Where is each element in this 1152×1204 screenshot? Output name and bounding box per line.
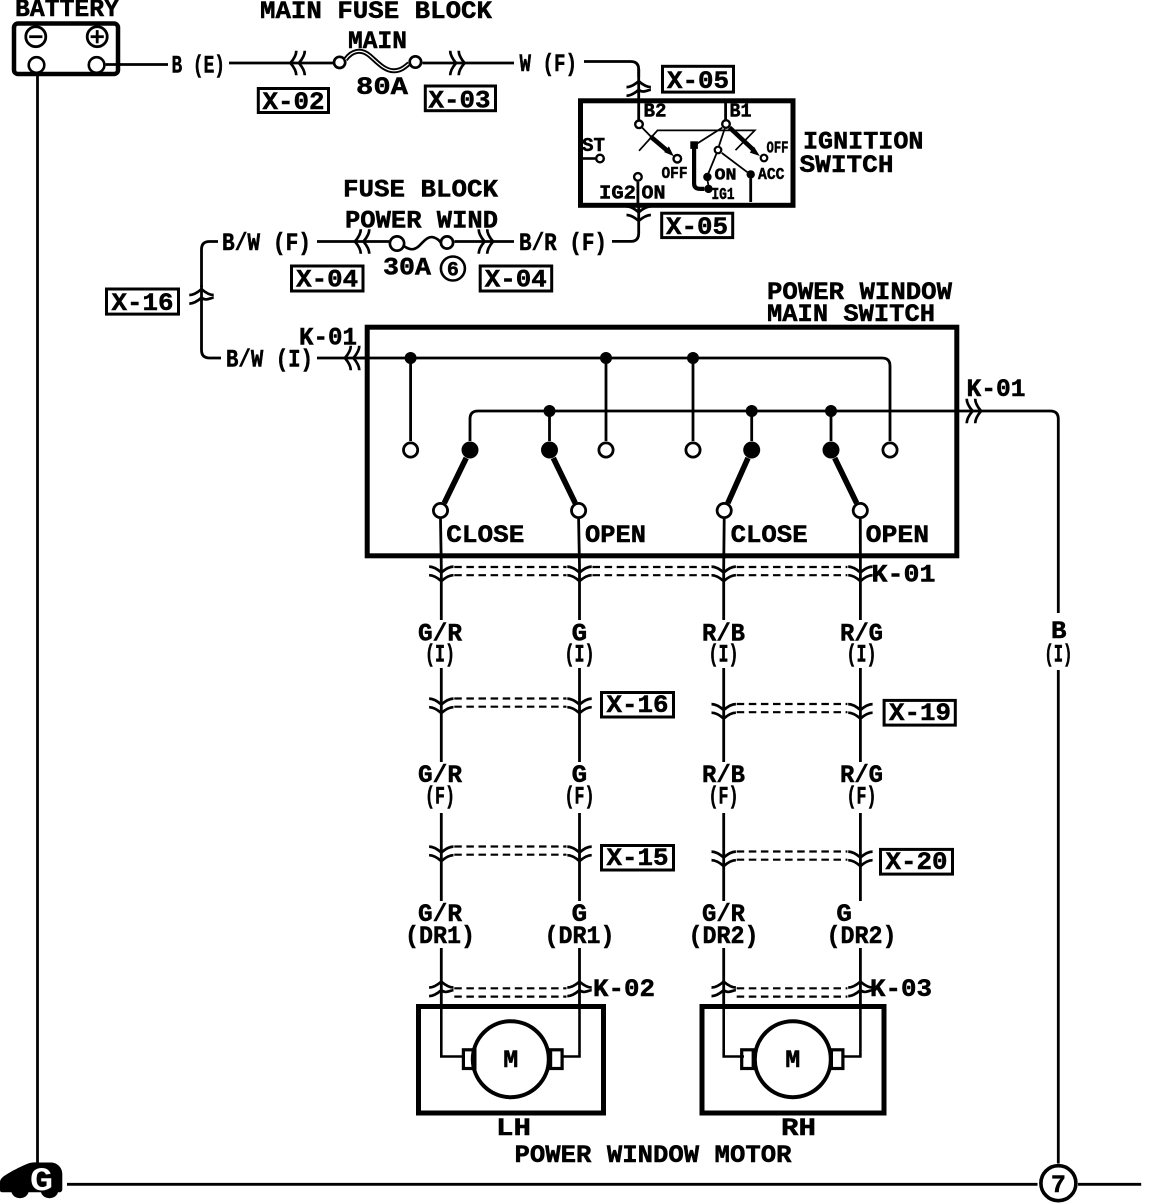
arm contact circle 3	[717, 503, 731, 517]
motor RH wiring right	[844, 1008, 860, 1057]
wire battery negative down left side	[36, 74, 39, 1163]
svg-text:K-02: K-02	[593, 975, 655, 1004]
switch arm 3 CLOSE	[728, 458, 748, 503]
dashed connector line	[593, 566, 711, 568]
motor RH brush left	[742, 1050, 754, 1069]
dashed connector line	[737, 703, 848, 705]
wire IG2 down to B/R (F)	[637, 182, 640, 203]
connector X-02 chevron	[290, 51, 296, 76]
svg-text:W (F): W (F)	[520, 50, 578, 79]
svg-text:ON: ON	[642, 183, 666, 205]
wire segment col2	[578, 813, 581, 901]
connector X-03 chevron	[450, 51, 456, 76]
wire segment col3	[722, 813, 725, 901]
svg-text:SWITCH: SWITCH	[800, 151, 894, 180]
wire segment col3	[722, 948, 725, 1008]
svg-text:ACC: ACC	[758, 166, 785, 185]
ignition switch contact OFF right	[761, 155, 768, 162]
ground body symbol (car)	[0, 1162, 62, 1201]
junction dot	[600, 352, 612, 364]
connector row K-01 chevrons	[429, 567, 453, 573]
wire W (F) to ignition switch B2	[584, 62, 639, 78]
ground bus wire right segment	[1078, 1183, 1141, 1186]
svg-text:K-01: K-01	[967, 375, 1026, 404]
connector row K-02 chevrons	[429, 982, 453, 988]
motor LH wiring right	[562, 1008, 580, 1057]
power window motor LH box	[419, 1007, 604, 1114]
contact common 1 (filled)	[462, 442, 479, 459]
ignition switch contact OFF left	[674, 155, 682, 163]
contact open 2	[599, 443, 613, 457]
svg-text:(F): (F)	[847, 783, 877, 812]
battery	[14, 24, 118, 75]
dashed connector line	[454, 697, 566, 699]
connector K-01 chevron left	[345, 346, 351, 371]
contact open 3	[686, 443, 700, 457]
switch arm 4 OPEN	[835, 458, 857, 503]
svg-text:X-19: X-19	[889, 699, 951, 728]
thin line pivot to ACC	[722, 153, 748, 172]
junction dot	[746, 405, 758, 417]
dashed connector line	[454, 845, 566, 847]
svg-text:B/W (F): B/W (F)	[222, 229, 311, 258]
junction dot	[544, 405, 556, 417]
svg-text:(F): (F)	[425, 783, 455, 812]
power window motor RH box	[702, 1007, 884, 1114]
wire ACC down to box bottom	[749, 179, 752, 203]
svg-text:B1: B1	[730, 101, 752, 123]
contact common 4 (filled)	[823, 442, 840, 459]
svg-text:(DR1): (DR1)	[405, 922, 475, 951]
junction dot	[687, 352, 699, 364]
connector row X-15 chevrons	[429, 847, 453, 853]
svg-text:IG2: IG2	[599, 183, 636, 205]
mechanical linkage line	[639, 130, 755, 150]
arm contact circle 2	[572, 503, 586, 517]
svg-text:B2: B2	[644, 101, 667, 123]
contact open 4	[883, 443, 897, 457]
wire B/W (I) to box	[317, 357, 368, 360]
svg-text:RH: RH	[781, 1114, 816, 1143]
svg-text:ST: ST	[582, 135, 605, 157]
svg-text:IG1: IG1	[712, 186, 735, 205]
dashed connector line	[454, 987, 566, 989]
ignition switch terminal IG2	[634, 173, 642, 181]
svg-text:POWER WINDOW MOTOR: POWER WINDOW MOTOR	[515, 1141, 792, 1170]
fuse block chevron right	[479, 229, 485, 254]
bus wire top inside switch	[360, 358, 890, 441]
wire dot to contact	[692, 358, 695, 441]
wire battery positive to B (E)	[106, 63, 168, 66]
motor LH wiring left	[441, 1008, 462, 1057]
svg-text:B/R (F): B/R (F)	[519, 229, 607, 258]
ignition switch box	[581, 101, 794, 206]
wire segment col4	[859, 813, 862, 901]
svg-text:K-03: K-03	[870, 975, 932, 1004]
svg-text:B/W (I): B/W (I)	[226, 346, 313, 375]
contact common 2 (filled)	[541, 442, 558, 459]
junction dot	[825, 405, 837, 417]
connector K-01 chevron right	[967, 399, 973, 424]
wire arm2 down through box	[577, 519, 581, 566]
svg-text:(I): (I)	[425, 641, 455, 670]
svg-text:X-05: X-05	[666, 213, 728, 242]
wire dot to contact	[548, 411, 551, 441]
svg-text:M: M	[503, 1046, 518, 1075]
svg-text:(DR1): (DR1)	[545, 922, 615, 951]
svg-text:X-20: X-20	[886, 848, 948, 877]
svg-text:(I): (I)	[1044, 641, 1072, 670]
wire segment col4	[859, 668, 862, 762]
connector box X-15	[602, 846, 674, 871]
wire chevron to B/R (F)	[455, 240, 515, 243]
ignition switch terminal B2	[635, 121, 643, 129]
switch arm 2 OPEN	[553, 458, 575, 503]
connector box X-03	[425, 86, 495, 111]
line ON to IG1	[707, 181, 710, 185]
fuse POWER WIND 30A	[390, 236, 453, 250]
wire B/W (F) to chevron	[317, 240, 389, 243]
wire segment col3	[722, 668, 725, 762]
wire segment col1	[440, 948, 443, 1008]
wire dot to contact	[750, 411, 753, 441]
svg-text:OFF: OFF	[662, 165, 688, 184]
svg-text:X-04: X-04	[296, 266, 358, 295]
svg-text:OFF: OFF	[767, 140, 789, 159]
svg-text:MAIN: MAIN	[348, 27, 407, 56]
motor RH brush right	[831, 1050, 843, 1069]
svg-text:MAIN FUSE BLOCK: MAIN FUSE BLOCK	[260, 0, 492, 26]
svg-text:FUSE BLOCK: FUSE BLOCK	[343, 176, 498, 205]
connector box X-04 right	[480, 266, 552, 291]
svg-text:X-15: X-15	[607, 844, 669, 873]
ignition switch contact cluster right: junction	[690, 141, 698, 149]
wire arm1 down through box	[439, 519, 443, 566]
wire arm3 down through box	[722, 519, 725, 566]
contact common 3 (filled)	[743, 442, 760, 459]
svg-text:X-04: X-04	[485, 266, 547, 295]
svg-text:(F): (F)	[709, 783, 739, 812]
dashed connector line	[737, 850, 848, 852]
motor LH brush right	[551, 1050, 563, 1069]
wire segment col2	[578, 948, 581, 1008]
wire segment col1	[440, 813, 443, 901]
connector box X-05 top	[663, 66, 734, 92]
svg-text:X-16: X-16	[112, 289, 174, 318]
motor LH circle	[473, 1021, 549, 1097]
wire segment col2	[578, 668, 581, 762]
connector box X-16 left	[107, 289, 179, 314]
connector X-05 chevron up	[627, 81, 651, 87]
connector X-16 chevron up	[189, 289, 213, 295]
connector row X-19 chevrons	[712, 704, 736, 710]
circled 6	[441, 257, 465, 281]
bus wire second row	[470, 411, 1058, 613]
junction dot	[405, 352, 417, 364]
dashed connector line	[454, 566, 566, 568]
connector row K-03 chevrons	[712, 982, 736, 988]
wire fuse to chevron X-03	[423, 62, 515, 65]
wire segment col4	[859, 948, 862, 1008]
contact dot ON	[703, 173, 711, 181]
svg-text:X-05: X-05	[667, 67, 729, 96]
svg-text:CLOSE: CLOSE	[446, 521, 524, 550]
small pivot circle	[715, 147, 722, 154]
wire segment col1	[440, 668, 443, 762]
connector box X-05 bottom	[662, 213, 733, 237]
svg-text:80A: 80A	[356, 73, 408, 102]
wire B/W (F) elbow down-left	[202, 242, 219, 288]
connector box X-16	[602, 693, 674, 718]
switch arm 1 CLOSE	[444, 458, 466, 503]
ground reference circle 7	[1041, 1166, 1076, 1201]
connector box X-04 left	[292, 266, 364, 291]
svg-text:M: M	[785, 1046, 800, 1075]
contact dot IG1	[704, 185, 712, 193]
svg-text:G: G	[30, 1164, 54, 1202]
svg-text:(F): (F)	[565, 783, 595, 812]
svg-text:(I): (I)	[565, 641, 595, 670]
dashed connector line	[737, 987, 848, 989]
wire B (E) to connector X-02	[229, 62, 333, 65]
svg-text:X-03: X-03	[429, 87, 491, 116]
connector box X-20	[881, 849, 953, 874]
svg-text:LH: LH	[496, 1114, 531, 1143]
ignition switch terminal B1	[724, 103, 727, 120]
arm contact circle 1	[433, 503, 447, 517]
svg-text:30A: 30A	[383, 254, 431, 283]
fuse MAIN 80A	[334, 51, 421, 71]
arm contact circle 4	[853, 503, 867, 517]
svg-text:(DR2): (DR2)	[689, 922, 759, 951]
contact dot ACC	[747, 170, 755, 178]
connector row X-16 chevrons	[429, 699, 453, 705]
svg-text:OPEN: OPEN	[866, 521, 930, 550]
svg-text:ON: ON	[715, 167, 737, 186]
svg-text:OPEN: OPEN	[585, 521, 646, 550]
motor RH wiring left	[724, 1008, 744, 1057]
thin line B1 to junction	[697, 128, 723, 144]
svg-text:CLOSE: CLOSE	[731, 521, 808, 550]
svg-text:X-16: X-16	[607, 691, 669, 720]
wire B (I) lower segment	[1057, 670, 1060, 1164]
svg-text:MAIN SWITCH: MAIN SWITCH	[767, 300, 935, 329]
thin line pivot to ON	[708, 154, 716, 173]
wire X-16 chevron down to B/W (I) elbow	[202, 285, 222, 358]
switch arm B1 to OFF right with arrow	[730, 128, 760, 157]
wire dot to contact	[830, 411, 833, 441]
svg-text:BATTERY: BATTERY	[15, 0, 119, 24]
ground bus wire	[67, 1183, 1038, 1186]
contact open 1	[404, 443, 418, 457]
wire dot to contact	[605, 358, 608, 441]
switch arm B2 to OFF with arrow	[642, 128, 674, 157]
wire into ignition box	[637, 69, 640, 120]
wire arm4 down through box	[859, 519, 862, 566]
svg-text:(DR2): (DR2)	[827, 922, 897, 951]
connector box X-19	[884, 700, 955, 725]
svg-text:X-02: X-02	[263, 88, 325, 117]
connector row X-20 chevrons	[712, 852, 736, 858]
dashed connector line	[737, 566, 848, 568]
svg-text:B (E): B (E)	[172, 52, 226, 81]
thin line B1 to pivot	[719, 129, 725, 146]
motor LH brush left	[463, 1050, 475, 1069]
svg-text:7: 7	[1051, 1171, 1066, 1200]
motor RH circle	[755, 1021, 831, 1097]
svg-text:6: 6	[447, 259, 459, 282]
svg-text:(I): (I)	[709, 641, 739, 670]
ignition switch terminal ST	[582, 157, 595, 160]
wire dot to contact	[409, 358, 412, 441]
fuse block chevron left	[355, 229, 361, 254]
svg-text:K-01: K-01	[872, 561, 936, 590]
connector box X-02	[258, 89, 328, 113]
thick line junction to IG1	[694, 148, 704, 189]
svg-text:(I): (I)	[847, 641, 877, 670]
power window main switch box	[367, 327, 957, 556]
